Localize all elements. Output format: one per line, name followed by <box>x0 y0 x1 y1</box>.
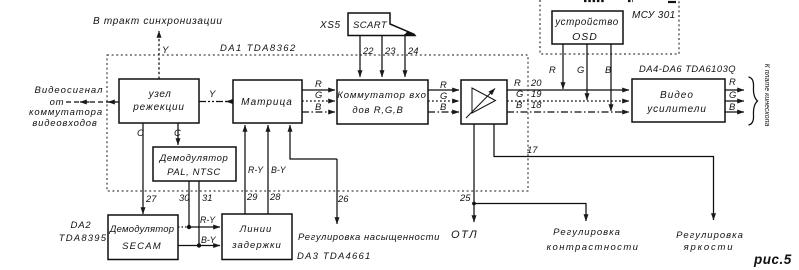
wire video input to rejection block <box>66 101 119 103</box>
wire G matrix to switch <box>302 100 335 102</box>
block video amplifiers <box>632 79 725 122</box>
svg-text:Видеосигнал: Видеосигнал <box>35 85 104 96</box>
wire SCART pin 22 <box>359 36 361 77</box>
svg-text:Линии: Линии <box>239 224 273 235</box>
wire OSD G to G line <box>586 44 588 100</box>
svg-text:26: 26 <box>337 193 349 204</box>
wire B amplifier to video amps pin 18 <box>507 111 629 113</box>
label DA2 TDA8395 <box>59 220 108 244</box>
wire G output to CRT <box>725 100 744 102</box>
svg-text:18: 18 <box>531 99 542 110</box>
wire OSD B to B line <box>610 44 612 111</box>
svg-text:G: G <box>729 89 736 100</box>
wire SCART pin 23 <box>381 36 383 77</box>
wire brightness: amp down, right, down to control <box>494 124 714 220</box>
junction dot R-Y <box>187 225 191 229</box>
label contrast adjust <box>547 227 640 253</box>
wire G amplifier to video amps pin 19 <box>507 100 629 102</box>
label brightness adjust <box>676 230 744 253</box>
svg-text:Коммутатор вхо: Коммутатор вхо <box>337 90 426 101</box>
svg-text:Регулировка насыщенности: Регулировка насыщенности <box>298 232 440 243</box>
wire PAL R-Y out pin 30 <box>188 181 190 227</box>
svg-text:R-Y: R-Y <box>200 215 216 225</box>
svg-text:Регулировка: Регулировка <box>553 227 621 238</box>
svg-text:рис.5: рис.5 <box>753 252 792 267</box>
svg-text:дов R,G,B: дов R,G,B <box>352 105 403 116</box>
svg-text:17: 17 <box>527 144 538 155</box>
cut-off marks at top <box>584 0 633 2</box>
wire R matrix to switch <box>302 89 335 91</box>
amplifier U1 (contrast/brightness stage) <box>461 80 507 124</box>
svg-text:узел: узел <box>148 89 172 100</box>
wire B switch to amplifier <box>428 111 459 113</box>
wire C to PAL demodulator <box>177 123 179 145</box>
wire Y up to sync path <box>158 31 160 79</box>
svg-text:С: С <box>174 127 181 138</box>
wire B output to CRT <box>725 111 744 113</box>
svg-text:G: G <box>315 89 322 100</box>
wire saturation down arrow <box>336 159 338 224</box>
svg-text:коммутатора: коммутатора <box>29 107 103 118</box>
svg-text:режекции: режекции <box>132 102 184 113</box>
svg-text:22: 22 <box>362 45 374 56</box>
wire R-Y delay lines to matrix pin 29 <box>244 125 246 214</box>
svg-text:B-Y: B-Y <box>201 235 217 245</box>
junction dot contrast branch <box>472 202 476 206</box>
svg-text:Y: Y <box>162 45 169 56</box>
junction dot B-Y <box>197 243 201 247</box>
wire G switch to amplifier <box>428 100 459 102</box>
IC DA1 TDA8362 dashed boundary <box>107 55 528 191</box>
wire R switch to amplifier <box>428 89 459 91</box>
wire OSD R to R line <box>562 44 564 89</box>
block PAL NTSC demodulator <box>153 147 236 181</box>
svg-text:XS5: XS5 <box>319 20 341 31</box>
svg-text:R: R <box>315 78 322 89</box>
svg-text:Y: Y <box>209 89 216 100</box>
svg-text:25: 25 <box>459 192 471 203</box>
svg-text:G: G <box>516 88 523 99</box>
svg-text:устройство: устройство <box>554 17 619 28</box>
svg-text:В тракт синхронизации: В тракт синхронизации <box>93 16 223 27</box>
svg-text:контрастности: контрастности <box>547 242 640 253</box>
svg-text:С: С <box>137 127 144 138</box>
wire R-Y SECAM to delay lines <box>178 226 189 228</box>
wire SCART pin 24 <box>404 34 406 77</box>
svg-text:TDA8395: TDA8395 <box>59 233 108 244</box>
svg-text:B: B <box>440 101 446 112</box>
wire R output to CRT <box>725 89 744 91</box>
svg-text:DA3 TDA4661: DA3 TDA4661 <box>297 251 371 262</box>
connector XS5 SCART <box>348 13 415 36</box>
svg-text:яркости: яркости <box>683 242 735 253</box>
block delay lines (линии задержки) <box>222 214 292 260</box>
svg-text:G: G <box>440 90 447 101</box>
block OSD device <box>552 11 623 44</box>
svg-text:МСУ 301: МСУ 301 <box>632 10 676 21</box>
svg-text:Матрица: Матрица <box>241 97 293 108</box>
svg-text:30: 30 <box>179 192 190 203</box>
wire Y rejection to matrix <box>199 101 233 103</box>
wire PAL B-Y out pin 31 <box>198 181 200 246</box>
svg-text:SECAM: SECAM <box>122 241 162 252</box>
wire contrast branch right and down <box>474 204 586 222</box>
svg-text:B: B <box>729 101 735 112</box>
block SECAM demodulator <box>108 215 178 260</box>
svg-text:R-Y: R-Y <box>248 165 264 175</box>
svg-text:B-Y: B-Y <box>271 165 287 175</box>
wire contrast pin 25 down to OTL <box>473 124 475 222</box>
svg-text:B: B <box>315 101 321 112</box>
svg-text:Видео: Видео <box>660 90 694 101</box>
svg-text:DA1 TDA8362: DA1 TDA8362 <box>220 43 297 54</box>
wire saturation horizontal <box>290 158 338 160</box>
svg-text:Регулировка: Регулировка <box>676 230 744 241</box>
svg-text:ОТЛ: ОТЛ <box>451 229 478 241</box>
svg-text:усилители: усилители <box>646 104 707 115</box>
svg-text:28: 28 <box>269 191 281 202</box>
module MCY 301 dashed boundary <box>540 0 679 54</box>
svg-text:OSD: OSD <box>572 31 598 43</box>
svg-text:Демодулятор: Демодулятор <box>159 153 229 164</box>
svg-text:DA4-DA6 TDA6103Q: DA4-DA6 TDA6103Q <box>639 63 736 74</box>
svg-text:R: R <box>514 77 521 88</box>
svg-text:К плате кинескопа: К плате кинескопа <box>763 64 770 127</box>
wire B-Y delay lines to matrix pin 28 <box>267 125 269 214</box>
svg-text:DA2: DA2 <box>71 220 92 231</box>
svg-text:29: 29 <box>246 191 258 202</box>
wire R amplifier to video amps pin 20 <box>507 89 629 91</box>
svg-text:19: 19 <box>531 88 542 99</box>
block matrix (матрица) <box>233 80 302 123</box>
block RGB input switch (коммутатор входов) <box>337 80 428 124</box>
brace to CRT <box>749 77 758 125</box>
wire B-Y SECAM to delay lines <box>178 245 220 247</box>
svg-text:R: R <box>729 76 736 87</box>
svg-text:20: 20 <box>530 77 542 88</box>
svg-text:SCART: SCART <box>353 20 388 31</box>
node video input text <box>29 85 104 129</box>
svg-text:Демодулятор: Демодулятор <box>109 224 174 235</box>
svg-text:31: 31 <box>202 192 212 203</box>
svg-text:23: 23 <box>384 45 396 56</box>
svg-text:24: 24 <box>407 45 418 56</box>
svg-text:B: B <box>516 99 522 110</box>
wire B matrix to switch <box>302 111 335 113</box>
wire C to SECAM demodulator pin 27 <box>142 123 144 214</box>
svg-text:G: G <box>577 64 584 75</box>
svg-text:27: 27 <box>145 193 157 204</box>
svg-text:R: R <box>549 64 556 75</box>
svg-text:R: R <box>440 79 447 90</box>
svg-text:видеовходов: видеовходов <box>32 118 97 129</box>
svg-text:задержки: задержки <box>231 240 282 251</box>
block rejection node (узел режекции) <box>119 79 199 123</box>
wire saturation control to matrix pin 26 <box>289 125 291 159</box>
svg-text:B: B <box>605 64 611 75</box>
svg-text:PAL, NTSC: PAL, NTSC <box>167 167 221 178</box>
